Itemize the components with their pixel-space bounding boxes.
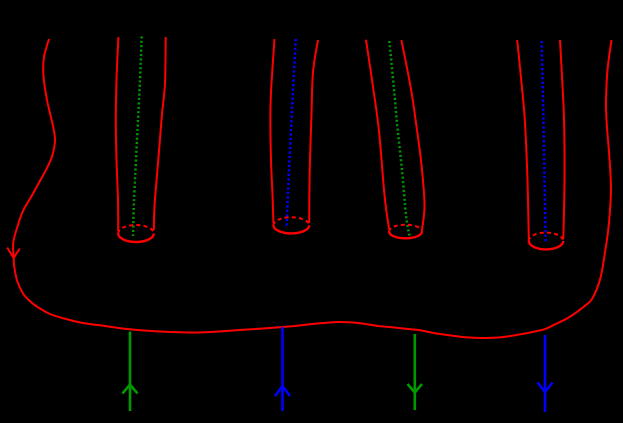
tube 3 left edge [366, 40, 389, 229]
tube 2 right edge [309, 40, 318, 223]
tube 4 core (blue dotted) [542, 41, 546, 243]
tube 3 core (green dotted) [389, 41, 409, 236]
strand 4 down arrowhead [538, 383, 553, 393]
tube 4 right edge [560, 40, 565, 239]
tube 2 core (blue dotted) [287, 39, 296, 228]
tube 4 mouth ellipse bottom (solid) [529, 241, 563, 249]
tube 3 mouth ellipse bottom (solid) [389, 232, 422, 239]
tube 2 left edge [270, 39, 274, 223]
strand 1 (green, oriented up) [129, 332, 132, 412]
tube 2 mouth ellipse bottom (solid) [273, 225, 309, 233]
strand 1 up arrowhead [123, 385, 138, 394]
tube 4 mouth ellipse top (dashed) [529, 233, 563, 241]
strand 3 down arrowhead [408, 384, 423, 393]
tube 1 mouth ellipse bottom (solid) [118, 234, 154, 243]
tube 1 left edge [116, 37, 119, 231]
tube 3 right edge [401, 40, 424, 230]
orientation arrowhead on left boundary [7, 248, 20, 259]
tube 1 right edge [154, 37, 166, 230]
strand 4 (blue, oriented down) [544, 335, 547, 412]
tube 1 mouth ellipse top (dashed) [118, 225, 154, 234]
tube 2 mouth ellipse top (dashed) [273, 217, 309, 225]
tube 1 core (green dotted) [133, 37, 142, 237]
strand 2 (blue, oriented up) [281, 327, 284, 411]
strand 3 (green, oriented down) [413, 334, 416, 410]
strand 2 up arrowhead [275, 386, 290, 396]
tube 4 left edge [517, 40, 529, 239]
surface boundary (red outline of the blob) [13, 39, 611, 338]
tube 3 mouth ellipse top (dashed) [389, 225, 422, 232]
